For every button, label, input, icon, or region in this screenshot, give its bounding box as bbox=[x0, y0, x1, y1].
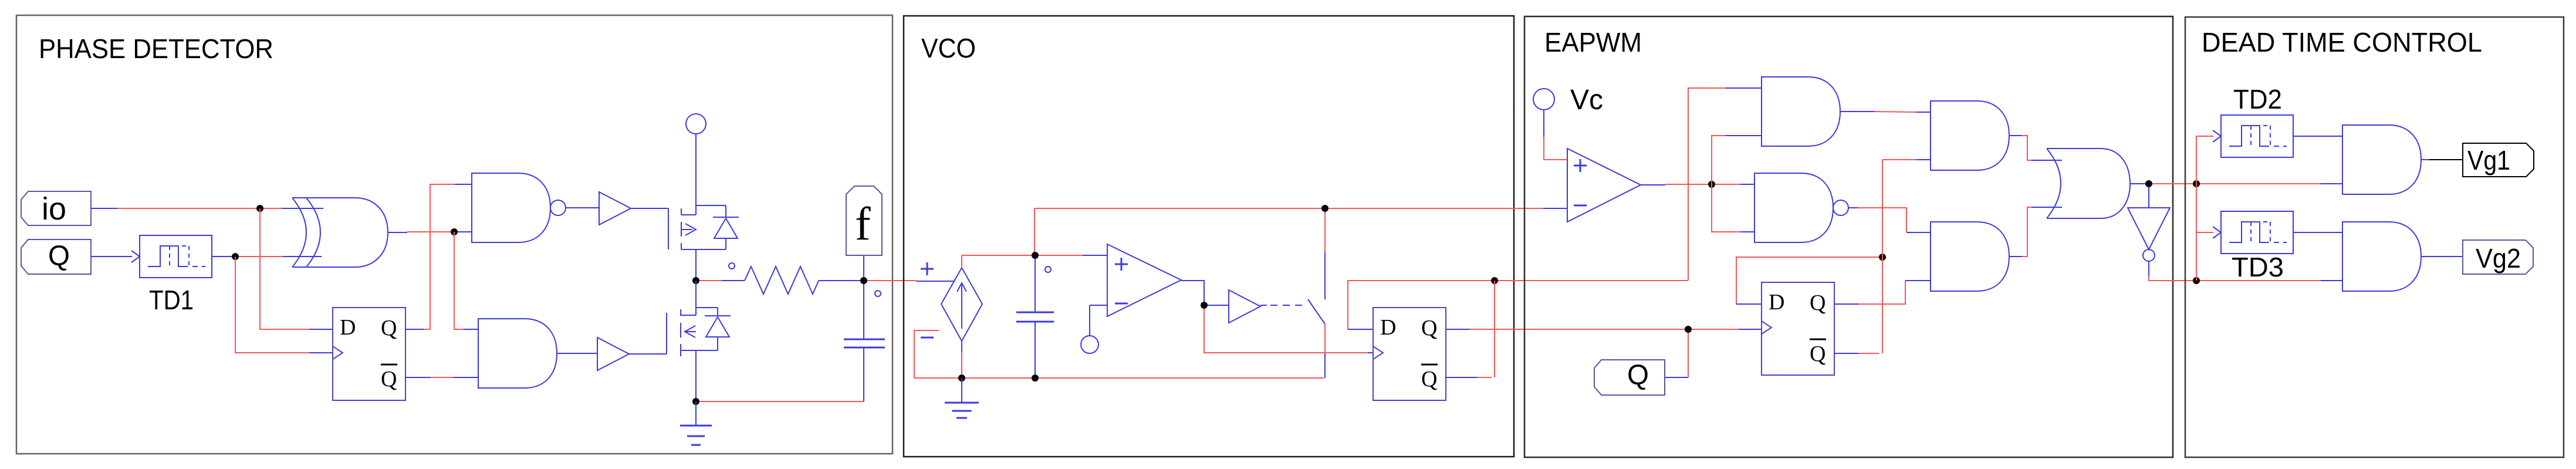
and gate U13 bbox=[1931, 101, 2009, 170]
node clock junction bbox=[1685, 326, 1692, 333]
wire dff2 Q out bbox=[1446, 329, 1470, 330]
wire buffer dashes bbox=[1260, 305, 1267, 306]
svg-text:Vc: Vc bbox=[1570, 85, 1603, 116]
port f bbox=[846, 186, 882, 255]
wire terminal to mosfet Q1 drain bbox=[695, 134, 697, 205]
nand gate U2 bbox=[472, 173, 550, 242]
wire cap to opamp plus bbox=[1039, 255, 1083, 256]
terminal circle ref bbox=[1081, 336, 1098, 353]
svg-text:Q: Q bbox=[1421, 316, 1437, 340]
terminal circle Vc bbox=[1533, 89, 1554, 110]
time delay TD3 bbox=[2221, 211, 2293, 254]
node td feed top junction bbox=[2193, 180, 2200, 187]
svg-text:Q: Q bbox=[48, 241, 70, 272]
wire or to DTC bbox=[2152, 183, 2193, 184]
wire dff Q to nand U2 in1 bbox=[406, 329, 424, 330]
wire U19 out to Vg2 bbox=[2421, 256, 2463, 257]
capacitor C2 bbox=[1035, 259, 1036, 312]
ground VCO bbox=[945, 402, 979, 404]
svg-text:Vg1: Vg1 bbox=[2467, 145, 2510, 176]
wire U12 out to U14 in1 bbox=[1848, 207, 1858, 208]
wire Vc to comparator bbox=[1543, 110, 1544, 137]
terminal circle top bbox=[686, 114, 706, 134]
wire or to inverter bbox=[2148, 187, 2149, 208]
svg-text:Q: Q bbox=[1810, 291, 1825, 315]
resistor R1 bbox=[699, 280, 722, 281]
label minus opamp bbox=[1115, 303, 1128, 305]
time delay TD1 bbox=[140, 235, 212, 278]
wire to TD3 bbox=[2196, 232, 2213, 233]
wire bottom rail bbox=[914, 377, 1324, 379]
wire U18 out to Vg1 bbox=[2421, 159, 2429, 160]
buffer U8 bbox=[1229, 290, 1260, 323]
wire U13 out to or U15 in1 bbox=[2009, 135, 2022, 136]
wire into source plus bbox=[917, 281, 954, 282]
wire clock rail bbox=[1204, 309, 1368, 353]
svg-text:PHASE DETECTOR: PHASE DETECTOR bbox=[39, 33, 273, 64]
wire dff2 Qbar out bbox=[1446, 377, 1477, 378]
current source I1 bbox=[941, 268, 982, 341]
wire comp to and U11 in2 bbox=[1712, 136, 1726, 184]
mosfet Q2 bbox=[695, 281, 697, 308]
wire U11 out to U13 bbox=[1840, 111, 1874, 112]
wire nand U2 out bbox=[566, 207, 599, 208]
wire dff3 Q to U14 in2 bbox=[1834, 303, 1858, 305]
svg-text:Vg2: Vg2 bbox=[2476, 243, 2521, 274]
time delay TD2 bbox=[2221, 115, 2293, 157]
wire riser to U13 in2 bbox=[1882, 159, 1916, 160]
svg-text:TD2: TD2 bbox=[2233, 84, 2282, 114]
svg-text:TD1: TD1 bbox=[149, 285, 194, 315]
wire feedback to EAPWM bbox=[1498, 280, 1688, 281]
svg-text:Q: Q bbox=[1421, 367, 1437, 392]
svg-text:Q: Q bbox=[381, 316, 397, 340]
wire TD1 out bbox=[212, 256, 232, 257]
port Q EAPWM bbox=[1594, 360, 1665, 395]
node dff2 loop junction bbox=[1491, 277, 1498, 284]
wire TD2 out bbox=[2293, 136, 2342, 137]
marker o cap bbox=[1045, 266, 1051, 272]
wire source to cap bottom bbox=[699, 401, 864, 402]
block PHASE DETECTOR frame bbox=[16, 15, 893, 454]
wire buffer U4 out to gate bbox=[631, 208, 668, 209]
and gate U18 bbox=[2342, 125, 2421, 194]
node opamp out junction bbox=[1201, 302, 1208, 309]
wire inverter out bbox=[2148, 261, 2149, 276]
svg-text:D: D bbox=[1380, 315, 1396, 340]
node mid junction bbox=[692, 277, 699, 284]
node TD1 junction bbox=[232, 253, 239, 260]
wire ground stem VCO bbox=[961, 378, 962, 403]
wire source bottom bbox=[961, 341, 962, 352]
wire or out bbox=[2130, 183, 2145, 184]
wire to TD2 bbox=[2196, 136, 2213, 137]
wire U14 out to or U15 in2 bbox=[2009, 256, 2022, 257]
svg-text:Q: Q bbox=[381, 367, 397, 392]
wire xor out bbox=[388, 232, 407, 233]
and gate U14 bbox=[1931, 222, 2009, 291]
capacitor C1 bbox=[863, 284, 864, 339]
port Q bbox=[21, 239, 91, 274]
svg-text:Q: Q bbox=[1627, 360, 1649, 391]
marker o f-node bbox=[875, 291, 881, 296]
or gate U15 bbox=[2047, 149, 2130, 218]
d flip-flop U5 bbox=[333, 308, 405, 400]
wire Qport to clock net bbox=[1665, 377, 1688, 378]
buffer U4 bbox=[599, 192, 631, 225]
wire dff3 Qbar riser bbox=[1834, 353, 1858, 354]
op-amp U7 bbox=[1107, 244, 1181, 316]
wire switch top bbox=[1324, 212, 1326, 252]
wire comp to nand U12 in2 bbox=[1712, 184, 1740, 232]
wire dff Qbar to and U3 in2 bbox=[406, 377, 431, 378]
mosfet Q1 bbox=[668, 208, 669, 249]
wire TD1 to clock bbox=[235, 257, 309, 353]
wire buffer U6 out to gate bbox=[629, 353, 667, 355]
node source bottom junction bbox=[958, 374, 965, 382]
label plus opamp bbox=[1115, 264, 1128, 265]
port io bbox=[21, 191, 91, 225]
port Vg1 bbox=[2463, 143, 2534, 177]
svg-text:D: D bbox=[340, 315, 356, 340]
switch S1 bbox=[1308, 299, 1325, 324]
inverter U17 bbox=[2128, 208, 2170, 249]
svg-text:f: f bbox=[855, 198, 871, 250]
svg-text:TD3: TD3 bbox=[2232, 252, 2284, 282]
d flip-flop U16 bbox=[1762, 282, 1834, 375]
wire xor out to and U3 in1 bbox=[454, 232, 464, 329]
node comparator junction bbox=[1708, 181, 1715, 188]
comparator U10 bbox=[1567, 149, 1641, 222]
wire dff2 D loop bbox=[1348, 281, 1491, 329]
svg-text:EAPWM: EAPWM bbox=[1544, 27, 1642, 58]
node xor out junction bbox=[451, 228, 458, 235]
wire to ground PD bbox=[695, 401, 697, 426]
ground PD bbox=[680, 425, 712, 427]
and gate U19 bbox=[2342, 222, 2421, 291]
label plus comparator bbox=[1574, 165, 1587, 167]
label minus source bbox=[921, 337, 934, 339]
wire f to node bbox=[863, 255, 864, 277]
node source junction bbox=[692, 398, 699, 405]
wire source top bbox=[961, 255, 962, 268]
node td feed bottom junction bbox=[2193, 277, 2200, 284]
wire to buffer U8 bbox=[1208, 305, 1229, 306]
svg-text:D: D bbox=[1769, 290, 1784, 315]
xor gate U1 bbox=[306, 198, 388, 267]
buffer U6 bbox=[597, 338, 629, 370]
wire clock to dff3 bbox=[1692, 329, 1739, 330]
wire switch bottom bbox=[1324, 324, 1326, 352]
wire Q to TD1 bbox=[91, 256, 132, 257]
wire io out bbox=[91, 208, 117, 209]
block VCO frame bbox=[904, 16, 1514, 457]
wire opamp out bbox=[1181, 281, 1204, 302]
node or out junction bbox=[2145, 180, 2152, 187]
wire feedback riser bbox=[1688, 88, 1726, 281]
node cap bottom junction bbox=[1032, 374, 1039, 382]
wire td feed vertical bbox=[2196, 136, 2197, 281]
node cap top junction bbox=[1032, 252, 1039, 259]
node rail switch junction bbox=[1321, 205, 1328, 212]
block EAPWM frame bbox=[1524, 16, 2173, 457]
svg-text:DEAD TIME CONTROL: DEAD TIME CONTROL bbox=[2202, 27, 2482, 58]
node f junction bbox=[860, 277, 867, 284]
svg-text:io: io bbox=[42, 191, 66, 227]
node dff3 loop junction bbox=[1879, 254, 1886, 261]
svg-text:VCO: VCO bbox=[921, 33, 976, 63]
wire f to VCO bbox=[867, 280, 917, 281]
label plus source bbox=[921, 268, 934, 270]
d flip-flop U9 bbox=[1373, 308, 1446, 400]
wire and U3 out bbox=[557, 353, 597, 354]
marker o mid-node bbox=[729, 263, 735, 269]
svg-text:Q: Q bbox=[1810, 342, 1825, 366]
wire rail riser bbox=[1034, 208, 1035, 252]
wire io to D input bbox=[260, 208, 309, 329]
port Vg2 bbox=[2463, 240, 2533, 274]
wire dff3 D loop bbox=[1736, 257, 1879, 304]
wire TD3 out bbox=[2293, 232, 2342, 233]
wire ref to minus bbox=[1089, 305, 1090, 336]
label minus comparator bbox=[1574, 205, 1587, 207]
nand gate U12 bbox=[1754, 173, 1833, 242]
wire comparator out bbox=[1641, 184, 1665, 185]
node io junction bbox=[256, 205, 263, 212]
and gate U3 bbox=[478, 319, 557, 388]
wire source minus loop bbox=[914, 330, 939, 378]
block DEAD TIME CONTROL frame bbox=[2185, 17, 2564, 457]
wire top rail bbox=[1035, 208, 1543, 209]
and gate U11 bbox=[1762, 77, 1840, 146]
